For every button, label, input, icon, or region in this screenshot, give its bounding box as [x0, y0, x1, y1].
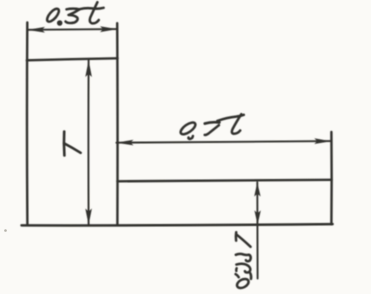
- faint scan speckles: [4, 229, 7, 232]
- 2 base: [249, 273, 252, 279]
- label 0.25T (rotated, reads bottom-up): [235, 232, 251, 290]
- wire: flange right edge / extension line: [330, 132, 333, 224]
- dimension line 0.25T: [256, 182, 258, 278]
- arrowhead 0.7t left: [116, 140, 133, 146]
- label T (rotated): [64, 132, 81, 156]
- arrowhead T down: [85, 209, 92, 225]
- arrowhead 0.3t right: [100, 26, 117, 32]
- 5: [236, 254, 251, 261]
- arrowhead 0.25T up: [254, 183, 260, 197]
- arrowhead 0.3t left: [27, 27, 45, 33]
- arrowhead 0.7t right: [314, 138, 331, 144]
- decimal comma: [235, 268, 238, 271]
- T crossbar: [235, 232, 238, 240]
- 0: [235, 277, 250, 290]
- wire: flange top edge: [117, 180, 331, 182]
- wire: right vertical edge of upright: [116, 23, 119, 225]
- dimension line T: [87, 60, 89, 225]
- wire: left vertical edge of upright: [26, 23, 29, 226]
- T stem: [236, 234, 251, 247]
- label 0.3t: [45, 2, 103, 24]
- arrowhead 0.25T down: [254, 210, 260, 224]
- dimension line 0.7t: [116, 141, 331, 143]
- dimension line 0.3t: [28, 28, 118, 31]
- wire: top edge of upright: [27, 58, 118, 60]
- label 0.7t: [179, 114, 244, 139]
- arrowhead T up: [85, 60, 92, 77]
- wire: bottom edge (full width): [22, 224, 333, 225]
- 2 top and bowl: [236, 264, 250, 273]
